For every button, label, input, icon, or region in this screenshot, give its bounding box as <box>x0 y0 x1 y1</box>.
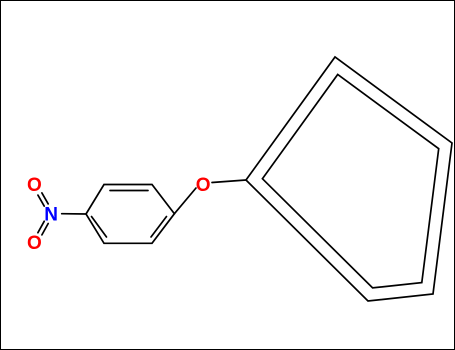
svg-text:N: N <box>44 205 58 226</box>
svg-text:O: O <box>27 233 42 254</box>
svg-text:O: O <box>27 175 42 196</box>
svg-text:O: O <box>196 175 211 196</box>
